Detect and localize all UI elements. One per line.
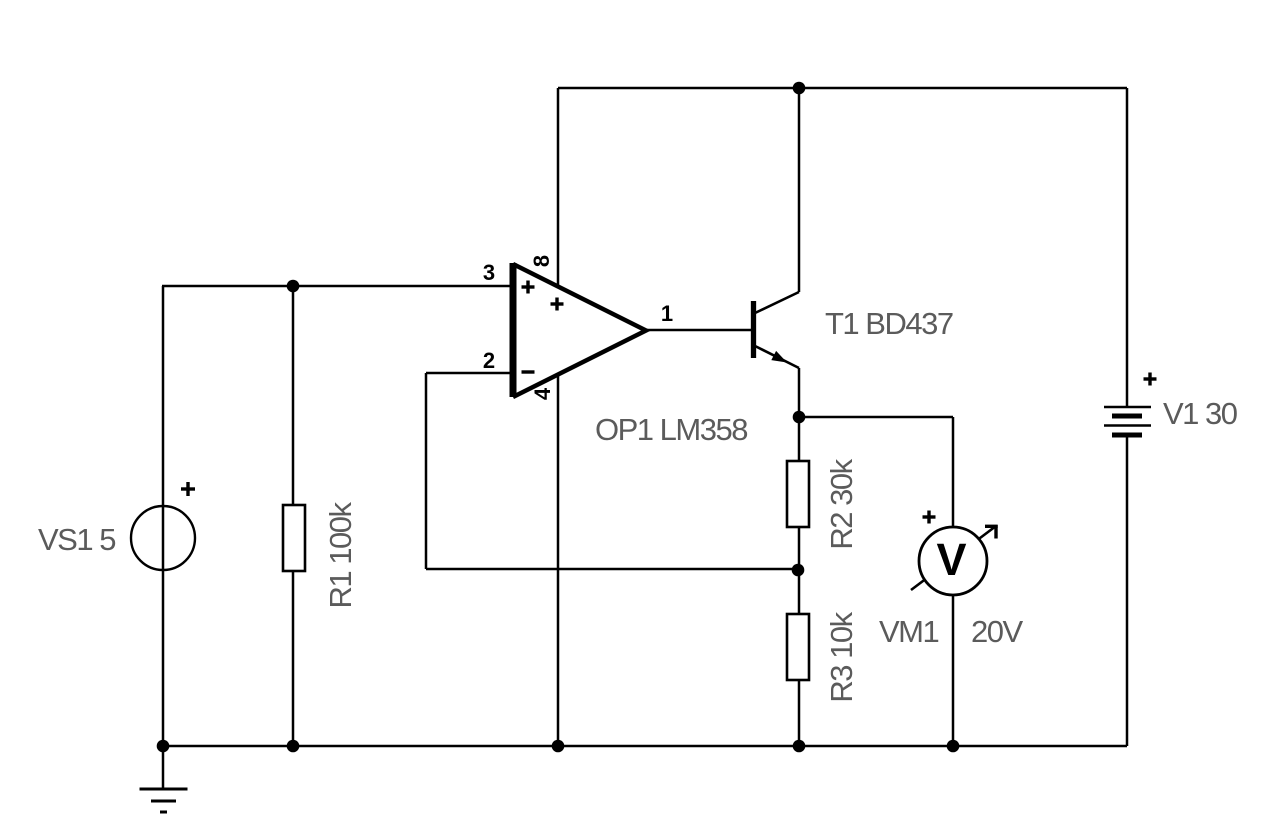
wire op-amp V- pin4 vertical xyxy=(557,374,560,746)
voltmeter VM1 circle xyxy=(919,527,987,595)
wire voltmeter bottom vertical xyxy=(952,593,955,746)
wire feedback vertical xyxy=(425,373,428,569)
svg-text:VS1 5: VS1 5 xyxy=(38,522,115,557)
ground bar 3 xyxy=(160,811,167,814)
svg-text:8: 8 xyxy=(529,255,554,267)
voltage source VS1 circle xyxy=(131,506,195,570)
svg-text:OP1 LM358: OP1 LM358 xyxy=(595,412,747,447)
resistor R2 xyxy=(787,461,809,527)
op-amp supply plus mark xyxy=(551,298,564,311)
svg-text:VM1: VM1 xyxy=(879,614,939,649)
wire R1 top vertical xyxy=(292,286,295,505)
svg-text:3: 3 xyxy=(483,260,495,285)
battery V1 plate long bottom xyxy=(1104,424,1151,427)
op-amp OP1 triangle edges xyxy=(513,264,646,397)
node ground R1 junction xyxy=(287,740,300,753)
svg-text:20V: 20V xyxy=(971,614,1023,649)
wire op-amp V+ pin8 vertical xyxy=(557,88,560,287)
battery V1 plate short thick bottom xyxy=(1112,433,1142,438)
ground bar 1 xyxy=(140,788,188,791)
wire emitter vertical xyxy=(798,368,801,417)
svg-text:1: 1 xyxy=(661,301,673,326)
node emitter junction xyxy=(793,411,806,424)
transistor T1 emitter arrow xyxy=(771,351,787,363)
ground bar 2 xyxy=(151,800,176,803)
svg-text:V1 30: V1 30 xyxy=(1163,396,1238,431)
svg-text:R3 10k: R3 10k xyxy=(824,611,859,702)
wire R1 bottom vertical xyxy=(292,571,295,746)
battery V1 plate long top xyxy=(1104,406,1151,409)
node ground voltmeter junction xyxy=(947,740,960,753)
svg-text:V: V xyxy=(936,534,966,585)
svg-text:R2 30k: R2 30k xyxy=(824,458,859,549)
wire feedback horizontal xyxy=(426,568,798,571)
node ground op-amp junction xyxy=(552,740,565,753)
node collector top junction xyxy=(793,82,806,95)
transistor T1 emitter diagonal xyxy=(755,346,799,368)
wire VS1 vertical xyxy=(162,286,165,746)
wire voltmeter top vertical xyxy=(952,417,955,529)
node R1 top junction xyxy=(287,280,300,293)
wire pin2 horizontal xyxy=(426,372,511,375)
wire collector vertical xyxy=(798,88,801,292)
wire op-amp output pin1 xyxy=(646,329,751,332)
VS1 plus polarity mark xyxy=(181,482,195,496)
op-amp OP1 left bar xyxy=(510,263,517,397)
wire R3 bottom stub xyxy=(798,679,801,746)
voltmeter VM1 open arrowhead xyxy=(985,525,998,539)
ground stem xyxy=(162,746,165,789)
svg-text:T1 BD437: T1 BD437 xyxy=(825,306,953,341)
op-amp non-inverting input plus mark xyxy=(522,281,535,294)
wire battery top vertical xyxy=(1126,88,1129,407)
svg-text:R1 100k: R1 100k xyxy=(323,502,358,609)
wire R2 to R3 vertical xyxy=(798,527,801,615)
node ground R3 junction xyxy=(793,740,806,753)
svg-text:2: 2 xyxy=(483,348,495,373)
wire bottom ground rail xyxy=(163,745,1127,748)
resistor R3 xyxy=(787,614,809,680)
wire R2 top stub xyxy=(798,417,801,461)
node ground VS1 junction xyxy=(157,740,170,753)
transistor T1 collector diagonal xyxy=(755,292,799,313)
wire top rail xyxy=(558,87,1127,90)
voltmeter plus polarity mark xyxy=(923,511,936,524)
resistor R1 xyxy=(283,505,305,571)
battery plus polarity mark xyxy=(1144,373,1157,386)
op-amp inverting input minus mark xyxy=(522,370,535,373)
wire battery bottom vertical xyxy=(1126,435,1129,746)
wire pin3 input horizontal xyxy=(162,285,511,288)
battery V1 plate short thick xyxy=(1112,414,1142,419)
wire emitter node to voltmeter horizontal xyxy=(799,416,953,419)
node feedback junction xyxy=(792,564,805,577)
transistor T1 base bar xyxy=(751,301,756,358)
svg-text:4: 4 xyxy=(530,387,555,400)
voltmeter VM1 arrow diagonal xyxy=(911,526,996,590)
